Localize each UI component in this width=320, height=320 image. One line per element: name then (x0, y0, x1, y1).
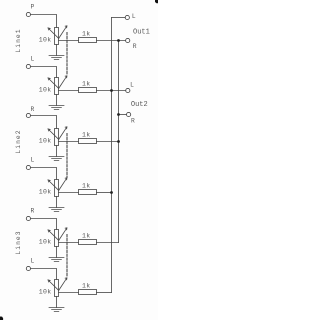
wire VR6 bottom to ground (56, 297, 58, 308)
output terminal Out1 R (126, 38, 137, 50)
ground GND1 (49, 56, 64, 60)
L bus vertical wire (111, 18, 113, 293)
ground GND3 (49, 157, 64, 161)
wire L terminal to pot VR2 top (31, 67, 57, 78)
wire VR1 bottom to ground (56, 45, 58, 56)
output terminal Out2 L (126, 82, 134, 93)
svg-text:L: L (132, 13, 136, 20)
svg-text:P: P (31, 4, 35, 11)
resistor R2 1k (79, 80, 97, 92)
input terminal R (Line2 right channel) (26, 106, 34, 118)
ground GND4 (49, 208, 64, 212)
svg-text:Line1: Line1 (15, 28, 22, 52)
svg-text:R: R (31, 208, 35, 215)
svg-text:R: R (31, 106, 35, 113)
wire VR5 wiper to R5 (59, 242, 79, 244)
resistor R4 1k (79, 182, 97, 194)
potentiometer VR2 10k (39, 76, 67, 95)
svg-text:Line2: Line2 (15, 129, 22, 153)
potentiometer VR3 10k (39, 127, 67, 146)
input terminal L (Line3 left channel) (26, 258, 34, 271)
wire R terminal to pot VR3 top (31, 116, 57, 129)
svg-text:10k: 10k (39, 36, 52, 43)
wire VR4 bottom to ground (56, 197, 58, 208)
R bus vertical wire (118, 41, 120, 243)
svg-text:Out1: Out1 (133, 29, 150, 37)
svg-text:1k: 1k (82, 282, 91, 289)
svg-text:1k: 1k (82, 80, 91, 87)
wire R6 to L bus end (97, 292, 112, 294)
resistor R6 1k (79, 282, 97, 294)
resistor R3 1k (79, 131, 97, 143)
wire R1 to Out1 R node (97, 40, 126, 42)
svg-text:1k: 1k (82, 182, 91, 189)
gang dashed link VR1-VR2 (66, 33, 68, 76)
svg-text:10k: 10k (39, 288, 52, 295)
svg-text:10k: 10k (39, 137, 52, 144)
wire P terminal to pot VR1 top (31, 15, 57, 28)
junction node R bus / row1 (117, 39, 120, 42)
svg-text:R: R (131, 117, 135, 124)
input terminal L (Line2 left channel) (26, 157, 34, 170)
svg-text:1k: 1k (82, 30, 91, 37)
wire L terminal to pot VR6 top (31, 269, 57, 280)
junction node L bus / row4 (110, 191, 113, 194)
input terminal L (Line1 left channel) (26, 56, 34, 69)
wire R3 to R bus (97, 141, 119, 143)
svg-text:R: R (133, 43, 137, 50)
ground GND2 (49, 106, 64, 110)
svg-text:L: L (31, 157, 35, 164)
svg-text:10k: 10k (39, 238, 52, 245)
potentiometer VR6 10k (39, 278, 67, 297)
wire R terminal to pot VR5 top (31, 219, 57, 230)
output terminal Out2 R (127, 112, 135, 124)
wire R2 to L bus and Out2 L (97, 90, 126, 92)
wire VR5 bottom to ground (56, 247, 58, 258)
output terminal Out1 L (125, 13, 136, 20)
page corner mark bottom-left (0, 317, 3, 320)
junction node R bus / row3 (117, 140, 120, 143)
svg-text:10k: 10k (39, 86, 52, 93)
potentiometer VR4 10k (39, 178, 67, 197)
svg-text:10k: 10k (39, 188, 52, 195)
potentiometer VR1 10k (39, 26, 67, 45)
wire VR2 wiper to R2 (59, 90, 79, 92)
gang dashed link VR3-VR4 (66, 134, 68, 178)
ground GND6 (49, 308, 64, 312)
resistor R5 1k (79, 232, 97, 244)
svg-text:L: L (130, 82, 134, 89)
svg-text:L: L (31, 56, 35, 63)
wire L terminal to pot VR4 top (31, 168, 57, 180)
potentiometer VR5 10k (39, 228, 67, 247)
svg-text:Line3: Line3 (15, 230, 22, 254)
wire VR1 wiper to R1 (59, 40, 79, 42)
wire VR3 wiper to R3 (59, 141, 79, 143)
wire R5 to R bus end (97, 242, 119, 244)
wire VR4 wiper to R4 (59, 192, 79, 194)
input terminal R (Line3 right channel) (26, 208, 34, 221)
svg-text:Out2: Out2 (131, 101, 148, 109)
wire L bus top to Out1 L terminal (112, 17, 126, 19)
input terminal P (Line1 right channel) (26, 4, 34, 17)
wire R4 to L bus (97, 192, 112, 194)
svg-text:1k: 1k (82, 232, 91, 239)
wire VR3 bottom to ground (56, 146, 58, 157)
wire VR2 bottom to ground (56, 95, 58, 106)
junction node R bus / Out2 R tap (117, 113, 120, 116)
ground GND5 (49, 258, 64, 262)
svg-text:L: L (31, 258, 35, 265)
wire VR6 wiper to R6 (59, 292, 79, 294)
svg-text:1k: 1k (82, 131, 91, 138)
wire R bus to Out2 R terminal (119, 114, 127, 116)
junction node L bus / row2 (110, 89, 113, 92)
gang dashed link VR5-VR6 (66, 235, 68, 278)
resistor R1 1k (79, 30, 97, 42)
page corner mark top-right (155, 0, 158, 3)
